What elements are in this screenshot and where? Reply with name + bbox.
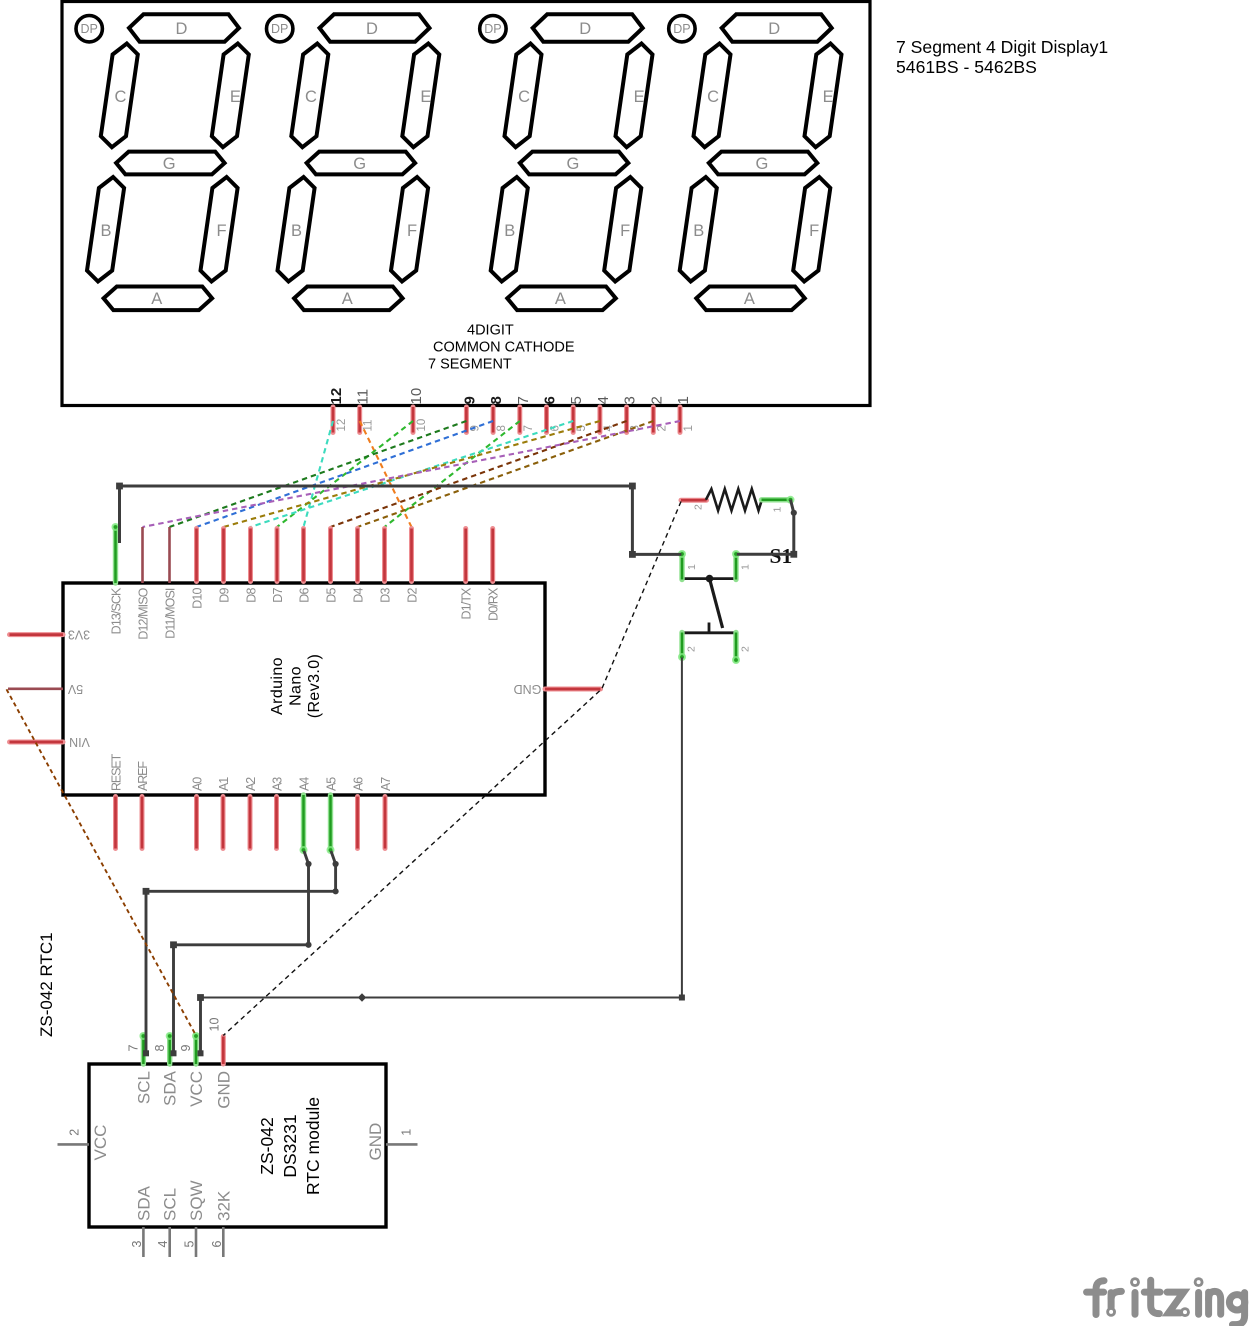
arduino pin D2: [405, 529, 419, 603]
svg-text:4DIGIT: 4DIGIT: [467, 323, 514, 339]
display pin 12: [328, 388, 348, 433]
display pin 1: [675, 396, 695, 432]
ratsnest wire display pin 1 to arduino D12: [143, 421, 681, 527]
display digit 2 segment A: [294, 287, 403, 311]
svg-text:SCL: SCL: [134, 1071, 153, 1104]
display digit 1 segment D: [129, 14, 239, 41]
display digit 4 segment G: [709, 152, 818, 175]
display digit 1 segment C: [101, 44, 138, 148]
svg-text:D3: D3: [378, 588, 392, 603]
ratsnest GND: resistor pin2 - arduino GND - RTC pin10: [223, 502, 681, 1036]
svg-text:A: A: [744, 290, 755, 308]
ratsnest wire display pin 10 to arduino D7: [277, 421, 413, 527]
RTC pin 7 SCL: [127, 1032, 154, 1104]
svg-text:SDA: SDA: [161, 1070, 180, 1106]
svg-text:RTC module: RTC module: [303, 1097, 323, 1195]
ratsnest wire display pin 8 to arduino D10: [197, 421, 494, 527]
svg-text:1: 1: [675, 396, 692, 404]
display digit 2 segment C: [291, 44, 328, 148]
svg-text:D4: D4: [351, 588, 365, 603]
arduino pin D9: [217, 529, 231, 603]
svg-text:1: 1: [740, 564, 752, 570]
switch S1 pin 2 (bottom-right): [732, 633, 752, 665]
svg-text:DS3231: DS3231: [280, 1114, 300, 1177]
RTC pin 5 SQW: [183, 1180, 207, 1257]
wire D13 to switch pin1: [116, 483, 681, 558]
display digit 4 segment B: [680, 177, 717, 282]
fritzing logo: [1087, 1280, 1245, 1324]
svg-text:D11/MOSI: D11/MOSI: [163, 588, 177, 639]
svg-text:(Rev3.0): (Rev3.0): [306, 654, 323, 719]
display digit 4 DP circle: [669, 16, 695, 42]
arduino pin 5V: [8, 682, 83, 696]
display digit 3 DP circle: [480, 16, 506, 42]
svg-text:D6: D6: [297, 588, 311, 603]
arduino pin D5: [324, 529, 338, 603]
svg-text:32K: 32K: [214, 1190, 233, 1221]
ratsnest wire display pin 2 to arduino D4: [358, 421, 654, 527]
svg-text:RESET: RESET: [109, 753, 123, 791]
arduino pin A5: [324, 777, 338, 854]
svg-text:G: G: [163, 155, 176, 173]
arduino pin D12/MISO: [136, 527, 150, 640]
arduino pin A0: [190, 777, 204, 849]
svg-text:7: 7: [515, 396, 532, 404]
svg-text:VIN: VIN: [69, 735, 90, 749]
svg-text:3: 3: [130, 1241, 144, 1248]
svg-text:C: C: [707, 88, 719, 106]
svg-text:C: C: [305, 88, 317, 106]
RTC module title: [257, 1097, 323, 1195]
svg-text:D0/RX: D0/RX: [487, 587, 501, 621]
display digit 2 segment D: [320, 14, 430, 41]
svg-text:A3: A3: [270, 777, 284, 791]
arduino pin RESET: [109, 753, 123, 848]
svg-text:9: 9: [179, 1045, 193, 1052]
svg-text:DP: DP: [271, 22, 288, 36]
RTC pin 1 GND: [366, 1123, 418, 1161]
svg-text:D9: D9: [217, 588, 231, 603]
arduino pin A1: [217, 777, 231, 849]
arduino pin A4: [297, 777, 311, 854]
svg-text:1: 1: [772, 507, 784, 513]
svg-text:2: 2: [68, 1129, 82, 1136]
display digit 1 segment E: [212, 44, 249, 148]
svg-text:VCC: VCC: [91, 1125, 110, 1161]
svg-text:7: 7: [127, 1045, 141, 1052]
display digit 3 segment F: [604, 177, 641, 282]
display pin 6: [542, 396, 562, 432]
arduino pin VIN: [10, 735, 90, 749]
display digit 4 segment F: [793, 177, 830, 282]
wire A4 to RTC SDA: [170, 851, 312, 1056]
svg-text:E: E: [230, 88, 241, 106]
RTC module ZS-042 box: [89, 1064, 386, 1227]
svg-text:VCC: VCC: [187, 1071, 206, 1107]
ratsnest wire display pin 3 to arduino D5: [331, 421, 627, 527]
resistor R1: [681, 489, 795, 513]
svg-text:F: F: [620, 222, 630, 240]
display digit 3 segment B: [491, 177, 528, 282]
svg-text:8: 8: [153, 1045, 167, 1052]
RTC pin 3 SDA: [130, 1185, 154, 1257]
display digit 3 segment D: [533, 14, 643, 41]
arduino pin GND: [514, 682, 601, 696]
svg-text:B: B: [291, 222, 302, 240]
svg-text:ZS-042: ZS-042: [257, 1117, 277, 1174]
svg-text:2: 2: [693, 504, 705, 510]
svg-text:1: 1: [683, 425, 695, 431]
svg-text:8: 8: [488, 396, 505, 404]
RTC pin 10 GND: [207, 1018, 233, 1109]
display digit 2 segment B: [278, 177, 315, 282]
display digit 4 segment D: [722, 14, 832, 41]
arduino pin AREF: [136, 761, 150, 849]
svg-text:D10: D10: [190, 588, 204, 609]
svg-text:5V: 5V: [67, 682, 83, 696]
display digit 4 segment A: [696, 287, 805, 311]
svg-text:A4: A4: [297, 777, 311, 791]
svg-text:D13/SCK: D13/SCK: [109, 587, 123, 634]
display digit 2 segment E: [402, 44, 439, 148]
ratsnest wire display pin 5 to arduino D8: [251, 421, 574, 527]
svg-text:D: D: [176, 20, 188, 38]
svg-text:Nano: Nano: [288, 666, 305, 706]
arduino pin D3: [378, 529, 392, 603]
svg-text:F: F: [809, 222, 819, 240]
svg-text:D8: D8: [244, 588, 258, 603]
ratsnest wire display pin 11 to arduino D2: [360, 421, 412, 527]
svg-text:2: 2: [648, 396, 665, 404]
display pin 8: [488, 396, 508, 432]
display pin 2: [648, 396, 668, 432]
display pin 9: [461, 396, 481, 432]
svg-text:DP: DP: [81, 22, 98, 36]
svg-text:A7: A7: [379, 777, 393, 791]
svg-text:7 SEGMENT: 7 SEGMENT: [428, 357, 512, 373]
svg-text:B: B: [504, 222, 515, 240]
RTC pin 6 32K: [210, 1190, 234, 1257]
svg-text:F: F: [407, 222, 417, 240]
display pin 11: [355, 389, 375, 433]
svg-text:ZS-042 RTC1: ZS-042 RTC1: [37, 932, 56, 1037]
wire resistor pin1 to switch pin1 (right): [737, 500, 797, 558]
display digit 1 segment A: [104, 287, 213, 311]
display digit 3 segment G: [520, 152, 629, 175]
arduino pin A7: [379, 777, 393, 849]
svg-text:A1: A1: [217, 777, 231, 791]
svg-text:A0: A0: [190, 777, 204, 791]
svg-text:DP: DP: [673, 22, 690, 36]
ratsnest wire display pin 7 to arduino D3: [385, 421, 520, 527]
display digit 2 segment F: [391, 177, 428, 282]
display digit 4 segment C: [694, 44, 731, 148]
svg-text:G: G: [755, 155, 768, 173]
RTC pin 9 VCC: [179, 1032, 206, 1107]
svg-text:9: 9: [461, 396, 478, 404]
svg-text:G: G: [566, 155, 579, 173]
svg-text:11: 11: [355, 389, 372, 405]
ratsnest wire display pin 4 to arduino D9: [224, 421, 600, 527]
display digit 1 segment G: [116, 152, 225, 175]
display internal label: [428, 323, 575, 373]
svg-text:12: 12: [336, 419, 348, 432]
svg-text:DP: DP: [484, 22, 501, 36]
svg-text:7: 7: [523, 425, 535, 431]
arduino pin D10: [190, 529, 204, 609]
svg-text:5: 5: [576, 425, 588, 431]
svg-text:G: G: [353, 155, 366, 173]
svg-text:A: A: [342, 290, 353, 308]
7-segment 4-digit display U1 outline box: [62, 2, 870, 406]
ratsnest wire display pin 12 to arduino D6: [304, 421, 334, 527]
display digit 3 segment C: [505, 44, 542, 148]
svg-text:6: 6: [210, 1241, 224, 1248]
svg-text:3: 3: [622, 396, 639, 404]
svg-text:3V3: 3V3: [68, 628, 90, 642]
display pin 5: [568, 396, 588, 432]
ratsnest wire display pin 9 to arduino D11: [170, 421, 467, 527]
svg-text:A6: A6: [351, 777, 365, 791]
arduino nano U2 box: [63, 583, 545, 795]
switch S1 pin 1 (top-right): [732, 550, 752, 580]
svg-text:5: 5: [568, 396, 585, 404]
svg-text:12: 12: [328, 388, 345, 405]
display digit 1 DP circle: [76, 16, 102, 42]
svg-text:Arduino: Arduino: [269, 657, 286, 715]
svg-text:C: C: [114, 88, 126, 106]
svg-text:10: 10: [416, 419, 428, 432]
svg-text:2: 2: [686, 646, 698, 652]
display digit 1 segment F: [201, 177, 238, 282]
arduino pin D8: [244, 529, 258, 603]
svg-text:A: A: [555, 290, 566, 308]
svg-text:GND: GND: [214, 1071, 233, 1109]
svg-text:AREF: AREF: [136, 761, 150, 791]
arduino pin 3V3: [10, 628, 91, 642]
display pin 3: [622, 396, 642, 432]
arduino pin D1/TX: [460, 529, 474, 620]
display digit 3 segment A: [507, 287, 616, 311]
RTC pin 8 SDA: [153, 1032, 180, 1106]
display title label: [896, 37, 1108, 77]
display pin 7: [515, 396, 535, 432]
svg-text:C: C: [518, 88, 530, 106]
svg-text:D12/MISO: D12/MISO: [136, 587, 150, 639]
svg-text:A: A: [151, 290, 162, 308]
display digit 2 DP circle: [267, 16, 293, 42]
svg-text:8: 8: [496, 425, 508, 431]
svg-text:E: E: [420, 88, 431, 106]
svg-text:E: E: [634, 88, 645, 106]
svg-text:10: 10: [207, 1018, 221, 1032]
svg-text:GND: GND: [366, 1123, 385, 1161]
arduino nano title: [269, 654, 323, 719]
display digit 1 segment B: [87, 177, 124, 282]
svg-text:A2: A2: [244, 777, 258, 791]
display digit 2 segment G: [307, 152, 416, 175]
svg-text:1: 1: [400, 1129, 414, 1136]
RTC pin 2 VCC: [58, 1125, 111, 1161]
display digit 3 segment E: [616, 44, 653, 148]
svg-text:B: B: [693, 222, 704, 240]
svg-text:F: F: [216, 222, 226, 240]
svg-text:4: 4: [595, 396, 612, 404]
svg-text:SDA: SDA: [134, 1185, 153, 1221]
arduino pin D13/SCK: [109, 523, 123, 634]
wire switch pin2 to RTC VCC: [197, 658, 685, 1057]
svg-text:S1: S1: [770, 544, 793, 568]
switch S1 body: [682, 575, 737, 634]
svg-text:D1/TX: D1/TX: [460, 587, 474, 619]
svg-text:GND: GND: [514, 682, 542, 696]
display digit 4 segment E: [805, 44, 842, 148]
svg-text:A5: A5: [324, 777, 338, 791]
svg-text:7 Segment 4 Digit Display1: 7 Segment 4 Digit Display1: [896, 37, 1108, 57]
switch S1 pin 1 (top-left): [678, 550, 698, 580]
switch S1 pin 2 (bottom-left): [678, 633, 698, 662]
arduino pin A3: [270, 777, 284, 849]
svg-text:SCL: SCL: [161, 1188, 180, 1221]
arduino pin D7: [271, 529, 285, 603]
svg-text:E: E: [823, 88, 834, 106]
svg-text:D7: D7: [271, 588, 285, 603]
svg-text:D: D: [366, 20, 378, 38]
wire A5 to RTC SCL: [143, 851, 339, 1056]
svg-text:D: D: [768, 20, 780, 38]
RTC pin 4 SCL: [156, 1188, 180, 1257]
display pin 10: [408, 388, 428, 433]
svg-text:6: 6: [542, 396, 559, 404]
arduino pin A2: [244, 777, 258, 849]
svg-text:D5: D5: [324, 588, 338, 603]
arduino pin A6: [351, 777, 365, 849]
svg-text:2: 2: [740, 646, 752, 652]
svg-text:10: 10: [408, 388, 425, 405]
arduino pin D0/RX: [487, 529, 501, 621]
svg-text:4: 4: [156, 1241, 170, 1248]
arduino pin D11/MOSI: [163, 527, 177, 639]
svg-text:D2: D2: [405, 588, 419, 603]
svg-text:5: 5: [183, 1241, 197, 1248]
svg-text:5461BS - 5462BS: 5461BS - 5462BS: [896, 57, 1037, 77]
svg-text:1: 1: [686, 564, 698, 570]
svg-text:COMMON CATHODE: COMMON CATHODE: [433, 340, 575, 356]
arduino pin D4: [351, 529, 365, 603]
svg-text:SQW: SQW: [187, 1180, 206, 1221]
arduino pin D6: [297, 529, 311, 603]
ratsnest 5V to RTC VCC: [7, 689, 197, 1035]
display pin 4: [595, 396, 615, 432]
svg-text:B: B: [100, 222, 111, 240]
svg-text:D: D: [579, 20, 591, 38]
